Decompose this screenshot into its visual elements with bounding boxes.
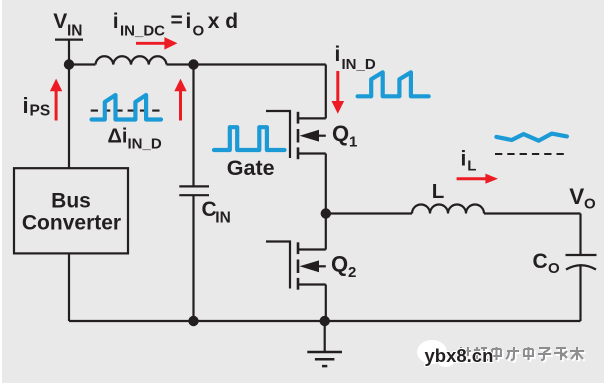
svg-text:Q: Q <box>332 121 349 146</box>
svg-text:i: i <box>335 43 341 66</box>
svg-text:O: O <box>548 260 560 277</box>
svg-text:IN: IN <box>215 209 231 226</box>
svg-text:V: V <box>569 184 584 209</box>
svg-text:i: i <box>461 148 467 171</box>
svg-text:Bus: Bus <box>51 190 91 213</box>
svg-text:L: L <box>467 158 476 175</box>
svg-text:Δi: Δi <box>108 126 128 148</box>
svg-text:PS: PS <box>30 103 51 120</box>
svg-text:C: C <box>533 250 548 273</box>
svg-text:IN_D: IN_D <box>128 135 162 152</box>
svg-text:Gate: Gate <box>227 156 275 180</box>
svg-text:i: i <box>113 10 119 33</box>
svg-text:i: i <box>186 10 192 33</box>
svg-text:2: 2 <box>348 264 356 281</box>
svg-text:d: d <box>225 10 238 33</box>
svg-text:x: x <box>208 10 220 33</box>
svg-text:IN: IN <box>67 23 83 40</box>
svg-text:Q: Q <box>331 252 348 277</box>
svg-text:L: L <box>432 180 445 203</box>
svg-text:ybx8.cn: ybx8.cn <box>425 345 494 366</box>
svg-text:IN_DC: IN_DC <box>120 22 165 39</box>
svg-text:i: i <box>23 93 29 118</box>
svg-text:1: 1 <box>349 134 357 151</box>
svg-text:=: = <box>171 9 183 32</box>
svg-text:O: O <box>193 22 205 39</box>
svg-text:Converter: Converter <box>22 212 121 235</box>
svg-text:V: V <box>53 10 67 33</box>
svg-text:O: O <box>584 195 596 212</box>
svg-text:IN_D: IN_D <box>342 56 376 73</box>
